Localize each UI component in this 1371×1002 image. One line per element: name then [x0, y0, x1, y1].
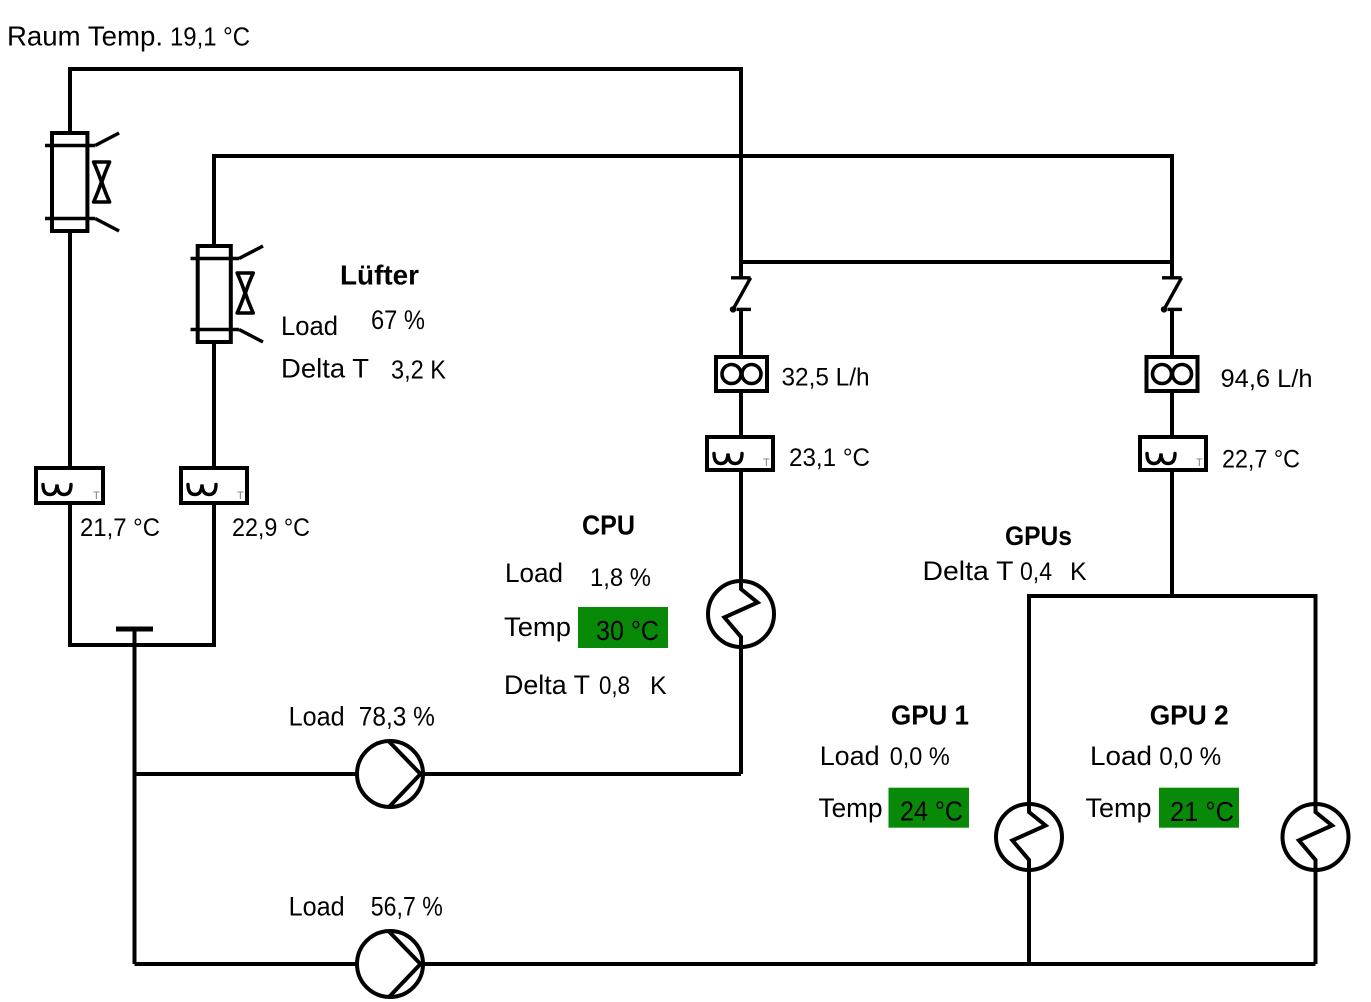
svg-text:T: T	[237, 490, 244, 502]
svg-text:3,2 K: 3,2 K	[391, 355, 447, 385]
svg-text:24 °C: 24 °C	[900, 796, 963, 827]
svg-text:GPU 1: GPU 1	[891, 699, 969, 730]
svg-text:0,0 %: 0,0 %	[1159, 743, 1221, 771]
svg-text:Temp: Temp	[504, 612, 571, 642]
svg-text:56,7 %: 56,7 %	[371, 892, 443, 922]
svg-text:1,8 %: 1,8 %	[590, 564, 651, 592]
svg-text:21 °C: 21 °C	[1170, 796, 1234, 827]
svg-text:K: K	[650, 672, 667, 700]
svg-text:0,4: 0,4	[1020, 558, 1052, 586]
svg-text:0,8: 0,8	[599, 672, 630, 700]
svg-text:67 %: 67 %	[371, 305, 425, 335]
svg-text:19,1 °C: 19,1 °C	[170, 22, 250, 52]
svg-text:Load: Load	[289, 892, 345, 922]
svg-text:Delta T: Delta T	[923, 556, 1014, 586]
svg-text:94,6 L/h: 94,6 L/h	[1221, 365, 1313, 393]
svg-text:23,1 °C: 23,1 °C	[789, 444, 870, 472]
svg-text:Load: Load	[820, 741, 880, 771]
svg-text:0,0 %: 0,0 %	[890, 743, 950, 771]
svg-text:Temp: Temp	[819, 793, 883, 823]
svg-text:22,9 °C: 22,9 °C	[232, 514, 310, 542]
svg-text:K: K	[1070, 558, 1087, 586]
svg-text:Load: Load	[1090, 741, 1152, 771]
svg-text:Load: Load	[505, 558, 563, 588]
svg-text:Delta T: Delta T	[504, 670, 590, 700]
svg-text:Lüfter: Lüfter	[340, 260, 419, 291]
svg-text:T: T	[93, 490, 100, 502]
svg-text:Delta T: Delta T	[281, 354, 369, 384]
svg-text:Raum Temp.: Raum Temp.	[7, 21, 163, 52]
svg-text:30 °C: 30 °C	[596, 615, 659, 646]
svg-text:Load: Load	[281, 311, 338, 341]
svg-text:Temp: Temp	[1086, 793, 1152, 823]
svg-text:22,7 °C: 22,7 °C	[1222, 446, 1300, 474]
svg-text:T: T	[1196, 457, 1203, 469]
svg-text:Load: Load	[289, 702, 345, 732]
svg-text:32,5 L/h: 32,5 L/h	[782, 364, 870, 392]
svg-text:78,3 %: 78,3 %	[359, 702, 435, 732]
svg-text:CPU: CPU	[582, 510, 635, 541]
svg-text:21,7 °C: 21,7 °C	[80, 514, 160, 542]
svg-text:GPUs: GPUs	[1005, 521, 1072, 551]
svg-text:T: T	[763, 457, 770, 469]
svg-text:GPU 2: GPU 2	[1150, 699, 1229, 730]
